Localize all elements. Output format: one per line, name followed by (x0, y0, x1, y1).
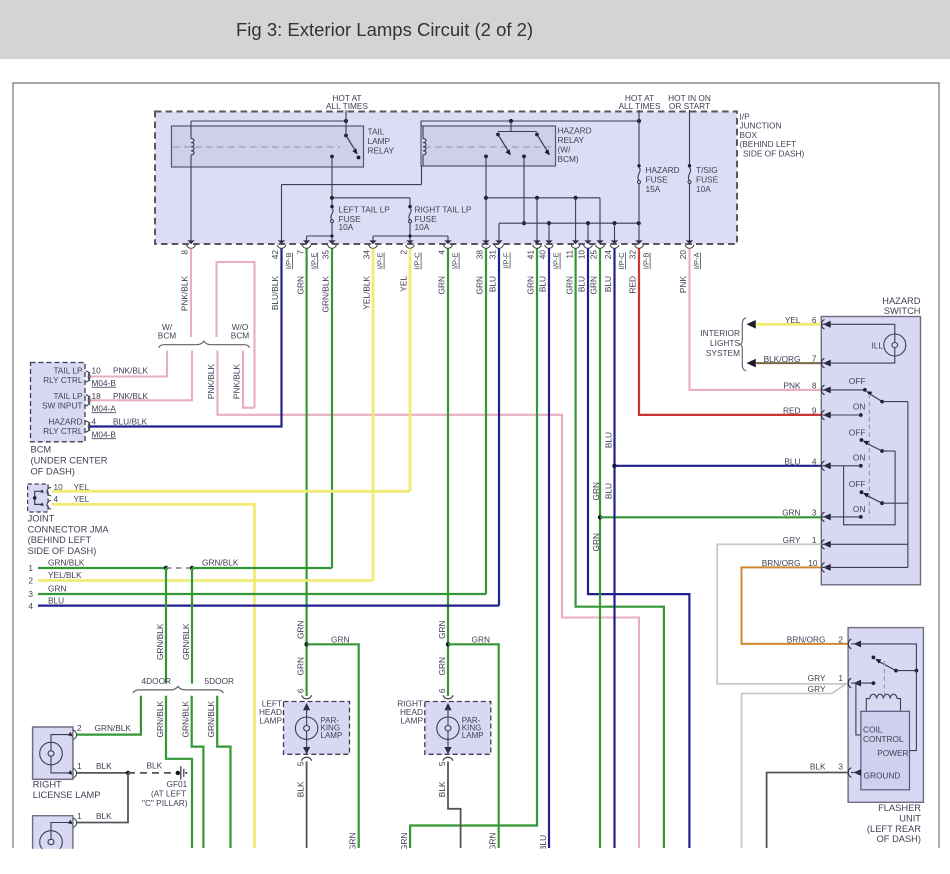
svg-text:4: 4 (54, 494, 59, 504)
wire BLU pin 40 long run down (548, 249, 550, 849)
right head lamp pin 6 connector (443, 695, 453, 698)
svg-text:OF DASH): OF DASH) (877, 834, 921, 844)
right license lamp caption (33, 780, 101, 800)
svg-text:YEL: YEL (74, 494, 90, 504)
svg-text:PNK/BLK: PNK/BLK (113, 366, 149, 376)
svg-text:GRN: GRN (591, 482, 601, 500)
svg-text:4: 4 (28, 601, 33, 611)
svg-text:GRN/BLK: GRN/BLK (181, 701, 191, 738)
svg-text:M04-B: M04-B (92, 429, 117, 439)
svg-text:BLU: BLU (48, 595, 64, 605)
svg-text:GRN: GRN (296, 657, 306, 675)
wire BLK right head lamp down (437, 762, 461, 849)
svg-text:GRN: GRN (475, 276, 485, 294)
wire PNK/BLK long run to rear lamps (206, 351, 639, 849)
node line 1 GRN/BLK (28, 558, 332, 574)
svg-text:RIGHT TAIL LP: RIGHT TAIL LP (415, 205, 472, 215)
pin 4 exit arrow and connector (437, 240, 460, 294)
svg-text:GRN: GRN (296, 620, 306, 638)
svg-text:5: 5 (296, 761, 306, 766)
svg-text:ON: ON (853, 402, 865, 412)
svg-text:PNK/BLK: PNK/BLK (113, 391, 149, 401)
svg-text:9: 9 (812, 406, 817, 416)
wire YEL joint connector pin 10 to pin 2 drop (52, 490, 410, 493)
svg-text:BLU: BLU (488, 276, 498, 292)
svg-text:LAMP: LAMP (400, 716, 423, 726)
svg-text:RELAY: RELAY (558, 135, 585, 145)
svg-text:HAZARD: HAZARD (646, 165, 680, 175)
left license lamp pin 1 connector (68, 811, 113, 828)
svg-text:3: 3 (838, 762, 843, 772)
svg-text:6: 6 (437, 688, 447, 693)
joint connector JMA box (28, 484, 51, 512)
svg-text:41: 41 (526, 250, 536, 260)
wire PNK/BLK brace stub to BCM tail lp sw input (89, 351, 192, 401)
svg-text:BLK: BLK (296, 781, 306, 797)
left license lamp bulb (40, 823, 72, 854)
svg-text:OFF: OFF (849, 479, 866, 489)
BCM pin TAIL LP SW INPUT (42, 391, 149, 413)
svg-text:5: 5 (437, 761, 447, 766)
wire BLK to flasher ground (767, 773, 849, 849)
svg-text:Fig 3: Exterior Lamps Circuit: Fig 3: Exterior Lamps Circuit (2 of 2) (236, 19, 533, 40)
svg-text:GRN: GRN (399, 833, 409, 851)
right license lamp pin 2 connector (68, 723, 132, 739)
wire GRN pin 11 run down (576, 249, 664, 849)
svg-text:I/P-E: I/P-E (451, 253, 460, 270)
pin 7 exit arrow and connector (295, 240, 318, 294)
BCM box (31, 363, 86, 442)
svg-text:RED: RED (783, 406, 801, 416)
svg-text:LAMP: LAMP (368, 136, 391, 146)
svg-text:18: 18 (92, 391, 102, 401)
svg-text:I/P-E: I/P-E (376, 253, 385, 270)
svg-text:BLK: BLK (96, 811, 112, 821)
svg-text:BCM): BCM) (558, 154, 579, 164)
svg-text:GRN: GRN (589, 276, 599, 294)
hazard switch caption (882, 296, 921, 316)
svg-text:ALL TIMES: ALL TIMES (326, 101, 368, 111)
svg-text:BLU: BLU (603, 483, 613, 499)
svg-text:PNK/BLK: PNK/BLK (180, 276, 190, 312)
svg-text:SW INPUT: SW INPUT (42, 400, 83, 410)
wire BLK dashed to ground GF01 (128, 761, 176, 773)
svg-text:24: 24 (603, 250, 613, 260)
pin 38 exit arrow and connector (475, 240, 491, 294)
wire hazard contact B rail (499, 156, 641, 244)
wire GRN pin 4 to right head lamp (446, 249, 450, 697)
svg-text:YEL: YEL (399, 276, 409, 292)
svg-text:LIGHTS: LIGHTS (710, 338, 740, 348)
svg-text:GRN/BLK: GRN/BLK (202, 558, 239, 568)
svg-text:GRN/BLK: GRN/BLK (206, 701, 216, 738)
wire PNK/BLK W/O BCM stub (232, 351, 255, 408)
wire GRN pin 7 to left head lamp (304, 249, 308, 697)
left head lamp pin 5 connector (296, 757, 312, 766)
svg-text:5DOOR: 5DOOR (205, 676, 235, 686)
svg-text:POWER: POWER (877, 748, 908, 758)
svg-text:6: 6 (296, 688, 306, 693)
pin 42 exit arrow and connector (270, 240, 293, 310)
svg-text:BLU: BLU (784, 456, 800, 466)
svg-text:OFF: OFF (849, 376, 866, 386)
svg-text:BLK: BLK (147, 761, 163, 771)
wire BLU pin 10 run down (588, 249, 689, 849)
svg-text:PNK/BLK: PNK/BLK (206, 364, 216, 400)
svg-text:GRN: GRN (782, 507, 800, 517)
svg-text:BCM: BCM (231, 330, 250, 340)
wire BRN/ORG hazard switch pin 10 to flasher (742, 567, 849, 644)
brace W/ BCM vs W/O BCM (158, 322, 250, 348)
wire GRN/BLK 5door run down a (181, 696, 204, 848)
left tail lp fuse (330, 205, 390, 233)
svg-text:YEL/BLK: YEL/BLK (362, 276, 372, 310)
pin 34 exit arrow and connector (362, 240, 385, 309)
flasher pin 1 internal line (851, 681, 875, 735)
svg-text:GRN: GRN (331, 635, 349, 645)
svg-text:10A: 10A (696, 184, 711, 194)
svg-text:BLU: BLU (577, 276, 587, 292)
svg-text:GRN: GRN (437, 620, 447, 638)
right head lamp box (425, 702, 491, 755)
svg-text:BLU: BLU (603, 432, 613, 448)
svg-text:PNK: PNK (783, 380, 801, 390)
svg-text:32: 32 (628, 250, 638, 260)
svg-text:GRN: GRN (348, 833, 358, 851)
hazard fuse 15A (637, 164, 679, 194)
svg-text:10A: 10A (339, 222, 354, 232)
left head lamp caption (259, 699, 283, 726)
svg-text:GRY: GRY (808, 673, 826, 683)
svg-text:4: 4 (437, 250, 447, 255)
svg-text:HAZARD: HAZARD (882, 296, 921, 306)
pin 35 exit arrow and connector (321, 240, 337, 312)
svg-text:ON: ON (853, 453, 865, 463)
wire t/sig fuse to pin 20 (689, 184, 691, 245)
svg-text:8: 8 (812, 380, 817, 390)
ILL bulb (821, 324, 906, 363)
svg-text:BLK: BLK (437, 781, 447, 797)
svg-text:7: 7 (295, 250, 305, 255)
wire HOT IN ON drop to t/sig fuse (689, 110, 691, 165)
pin 10 exit arrow and connector (577, 240, 593, 292)
svg-text:4: 4 (92, 417, 97, 427)
svg-text:GRN: GRN (48, 584, 66, 594)
svg-text:(BEHIND LEFT: (BEHIND LEFT (28, 535, 92, 545)
svg-text:RLY CTRL: RLY CTRL (43, 426, 83, 436)
wire left fuse output (307, 223, 334, 244)
wire PNK pin 20 to hazard switch (690, 249, 822, 390)
svg-text:GRN/BLK: GRN/BLK (321, 276, 331, 313)
bottom clip to white (0, 849, 950, 874)
svg-text:2: 2 (838, 634, 843, 644)
hazard switch pin connectors (821, 320, 830, 573)
pin 40 exit arrow and connector (538, 240, 561, 292)
hazard switch section 2 (821, 428, 895, 525)
wire BLU pin 24 to hazard switch and down (603, 249, 821, 849)
svg-text:BLU: BLU (603, 276, 613, 292)
svg-text:I/P-C: I/P-C (617, 252, 626, 270)
ground GF01 (142, 766, 188, 808)
tail relay switch (330, 134, 360, 160)
hazard relay K2 box (421, 126, 556, 166)
wire GRN branch to right parking lamp feed down (448, 635, 499, 849)
svg-text:BRN/ORG: BRN/ORG (787, 634, 826, 644)
svg-text:OR START: OR START (669, 101, 710, 111)
pin 2 exit arrow and connector (399, 240, 422, 291)
flasher coil (866, 694, 900, 711)
svg-text:RED: RED (628, 276, 638, 294)
wire GRN pin 25 to hazard switch and down (591, 249, 822, 849)
wire YEL/BLK pin 34 to line 2 (372, 249, 375, 581)
svg-text:TAIL: TAIL (368, 127, 385, 137)
svg-text:CONTROL: CONTROL (863, 734, 904, 744)
left head lamp pin 6 connector (302, 695, 312, 698)
svg-text:I/P-B: I/P-B (284, 253, 293, 270)
node line 4 BLU (28, 595, 499, 611)
svg-text:1: 1 (838, 673, 843, 683)
wire BLU pin 31 to line 4 (498, 249, 500, 606)
svg-text:(AT LEFT: (AT LEFT (151, 789, 186, 799)
wire tail relay output down (330, 157, 334, 206)
svg-text:(W/: (W/ (558, 145, 572, 155)
svg-text:CONNECTOR JMA: CONNECTOR JMA (28, 524, 110, 534)
left license lamp box (33, 816, 73, 856)
svg-text:I/P-E: I/P-E (309, 253, 318, 270)
hazard switch wire labels (762, 380, 801, 568)
svg-text:ON: ON (853, 504, 865, 514)
svg-text:40: 40 (538, 250, 548, 260)
wire hazard contact A rail (484, 156, 600, 244)
svg-text:LAMP: LAMP (462, 731, 484, 740)
svg-text:FUSE: FUSE (696, 175, 719, 185)
svg-text:GRN: GRN (472, 635, 490, 645)
wire YEL to hazard switch pin 6 (756, 315, 822, 325)
wire GRN pin 38 to line 3 (485, 249, 487, 595)
wire PNK/BLK W/O BCM loop (217, 262, 255, 408)
hazard relay switch (484, 121, 550, 158)
svg-text:LAMP: LAMP (321, 731, 343, 740)
wire PNK/BLK brace stub to BCM tail lp rly ctrl (89, 351, 167, 377)
svg-text:YEL/BLK: YEL/BLK (48, 570, 82, 580)
svg-text:COIL: COIL (863, 725, 883, 735)
svg-text:I/P-C: I/P-C (413, 252, 422, 270)
hazard switch pin numbers (808, 315, 818, 568)
svg-text:31: 31 (488, 250, 498, 260)
pin 20 exit arrow and connector (678, 240, 701, 293)
svg-text:PNK: PNK (678, 276, 688, 294)
svg-text:GRN: GRN (488, 833, 498, 851)
flasher inner module box (861, 711, 910, 790)
svg-text:GRN/BLK: GRN/BLK (181, 623, 191, 660)
wire tail relay coil to pin 8 (190, 167, 192, 244)
right tail lp fuse (408, 205, 472, 233)
hazard relay coil (423, 126, 426, 166)
svg-text:3: 3 (28, 589, 33, 599)
svg-text:10A: 10A (415, 222, 430, 232)
wire YEL joint connector pin 4 long run down (52, 504, 255, 848)
svg-text:2: 2 (399, 250, 409, 255)
tail lamp relay K1 box (172, 126, 364, 167)
svg-text:I/P-A: I/P-A (692, 253, 701, 270)
svg-text:BLK: BLK (96, 761, 112, 771)
wire HOT rail to hazard relay (421, 119, 641, 126)
svg-text:42: 42 (270, 250, 280, 260)
node line 2 YEL/BLK (28, 570, 373, 586)
svg-text:YEL: YEL (785, 315, 801, 325)
svg-text:4: 4 (812, 456, 817, 466)
hazard switch mechanical link (868, 394, 870, 518)
svg-text:RLY CTRL: RLY CTRL (43, 375, 83, 385)
svg-text:ILL: ILL (871, 341, 883, 351)
svg-text:RELAY: RELAY (368, 146, 395, 156)
svg-text:"C" PILLAR): "C" PILLAR) (142, 798, 188, 808)
svg-text:35: 35 (321, 250, 331, 260)
wire hazard coil to pin 42 (282, 166, 422, 244)
wire hazard fuse to pin 32 (638, 184, 640, 245)
right head lamp GRN labels (437, 620, 447, 693)
flasher pin 2 connector (787, 634, 861, 648)
svg-text:1: 1 (28, 563, 33, 573)
svg-text:GRN: GRN (437, 657, 447, 675)
svg-text:BLK: BLK (810, 762, 826, 772)
wire GRN/BLK 4door run down (155, 696, 192, 848)
hazard switch box (821, 317, 920, 585)
svg-text:(LEFT REAR: (LEFT REAR (867, 824, 921, 834)
wire GRN/BLK pin 35 to line 1 (331, 249, 333, 569)
svg-text:SYSTEM: SYSTEM (706, 348, 740, 358)
svg-text:10: 10 (92, 366, 102, 376)
svg-text:JOINT: JOINT (28, 514, 55, 524)
BCM pin TAIL LP RLY CTRL (43, 366, 148, 388)
wire GRN branch to left parking lamp feed down (307, 635, 359, 849)
wire BLK junction to left license lamp (76, 773, 128, 823)
wire GRY hazard switch pin 1 to flasher (717, 544, 848, 684)
wire PNK/BLK pin 8 down to W/BCM brace (190, 249, 192, 338)
wire GRN/BLK line 1 drop A to 4door brace (155, 568, 166, 684)
wire YEL pin 2 to joint connector line (409, 249, 412, 492)
wire BLK right license lamp to ground junction (76, 771, 130, 775)
flasher pin 1 connector (808, 673, 861, 688)
svg-text:RIGHT: RIGHT (33, 780, 62, 790)
svg-text:8: 8 (180, 250, 190, 255)
svg-text:GRN/BLK: GRN/BLK (95, 723, 132, 733)
wire coil feed to HOT node (191, 119, 348, 126)
svg-text:GF01: GF01 (167, 779, 188, 789)
svg-text:BLU: BLU (538, 835, 548, 851)
right license lamp bulb (40, 735, 72, 773)
svg-text:M04-B: M04-B (92, 378, 117, 388)
svg-text:INTERIOR: INTERIOR (700, 328, 740, 338)
left head lamp GRN labels (296, 620, 306, 693)
wire HOT supply drop into tail relay (345, 110, 347, 136)
bottom rotated wire labels (348, 833, 549, 851)
svg-text:GRN/BLK: GRN/BLK (155, 701, 165, 738)
joint connector caption (28, 514, 110, 556)
tail lamp relay label (368, 127, 395, 156)
svg-text:25: 25 (589, 250, 599, 260)
hazard switch pin 10 line (821, 566, 908, 568)
svg-text:OFF: OFF (849, 428, 866, 438)
left head lamp box (284, 702, 350, 755)
svg-text:BLU/BLK: BLU/BLK (113, 417, 148, 427)
node HOT AT ALL TIMES (tail relay feed) (326, 93, 368, 111)
svg-text:BLU/BLK: BLU/BLK (270, 276, 280, 311)
svg-text:GRN: GRN (295, 276, 305, 294)
svg-text:7: 7 (812, 354, 817, 364)
svg-text:GRN: GRN (564, 276, 574, 294)
node line 3 GRN (28, 584, 486, 600)
svg-text:LAMP: LAMP (259, 716, 282, 726)
wire RED pin 32 to hazard switch (639, 249, 821, 415)
svg-text:GRY: GRY (808, 684, 826, 694)
wire BLK/ORG to hazard switch pin 7 (756, 354, 822, 364)
svg-text:BCM: BCM (158, 330, 177, 340)
svg-text:34: 34 (362, 250, 372, 260)
pin 25 exit arrow and connector (589, 240, 605, 294)
right head lamp caption (397, 699, 423, 726)
svg-text:UNIT: UNIT (899, 814, 921, 824)
t/sig fuse 10A (688, 164, 719, 194)
joint connector pin 10 YEL (54, 482, 90, 492)
flasher unit box (848, 628, 923, 803)
svg-text:BLK/ORG: BLK/ORG (764, 354, 801, 364)
wire rail to right tail fuse (332, 198, 410, 206)
wire GRN/BLK line 1 drop B to 5door brace (181, 568, 192, 684)
svg-text:HAZARD: HAZARD (558, 126, 592, 136)
svg-text:SIDE OF DASH): SIDE OF DASH) (743, 148, 805, 158)
svg-text:OF DASH): OF DASH) (31, 467, 75, 477)
pin 11 exit arrow and connector (564, 240, 580, 294)
I/P junction box (155, 112, 737, 245)
svg-text:GRN: GRN (437, 276, 447, 294)
svg-text:4DOOR: 4DOOR (142, 676, 172, 686)
pin 31 exit arrow and connector (488, 240, 511, 292)
svg-text:PNK/BLK: PNK/BLK (232, 364, 242, 400)
svg-text:FLASHER: FLASHER (878, 803, 921, 813)
flasher caption (867, 803, 921, 844)
brace 4DOOR / 5DOOR (133, 676, 234, 693)
BCM pin HAZARD RLY CTRL (43, 417, 147, 440)
svg-text:1: 1 (77, 811, 82, 821)
hazard relay label (558, 126, 592, 165)
svg-text:ALL TIMES: ALL TIMES (619, 101, 661, 111)
pin 24 exit arrow and connector (603, 240, 626, 292)
BCM caption (31, 445, 108, 477)
svg-text:BCM: BCM (31, 445, 52, 455)
right license lamp pin 1 connector (68, 761, 113, 778)
pin 32 exit arrow and connector (628, 240, 651, 293)
svg-text:GRN/BLK: GRN/BLK (48, 558, 85, 568)
joint connector pin 4 YEL (54, 494, 90, 504)
I/P junction box label (740, 112, 805, 159)
interior lights system arrows (700, 318, 755, 371)
svg-text:I/P-F: I/P-F (502, 252, 511, 269)
right parking lamp bulb (437, 703, 484, 754)
svg-text:LICENSE LAMP: LICENSE LAMP (33, 790, 101, 800)
svg-text:GRY: GRY (783, 535, 801, 545)
wire BLU/BLK pin 42 to BCM hazard rly ctrl (89, 249, 282, 427)
svg-text:T/SIG: T/SIG (696, 165, 718, 175)
svg-text:38: 38 (475, 250, 485, 260)
wire GRY second run down (742, 684, 846, 848)
wire right fuse output (373, 223, 448, 244)
wire GRN pin 41 long run down (410, 249, 537, 849)
wire BLK left head lamp down (296, 762, 307, 849)
tail lamp relay coil (191, 126, 194, 167)
svg-text:LEFT TAIL LP: LEFT TAIL LP (339, 205, 391, 215)
wire GRN/BLK to right license lamp (76, 696, 141, 735)
